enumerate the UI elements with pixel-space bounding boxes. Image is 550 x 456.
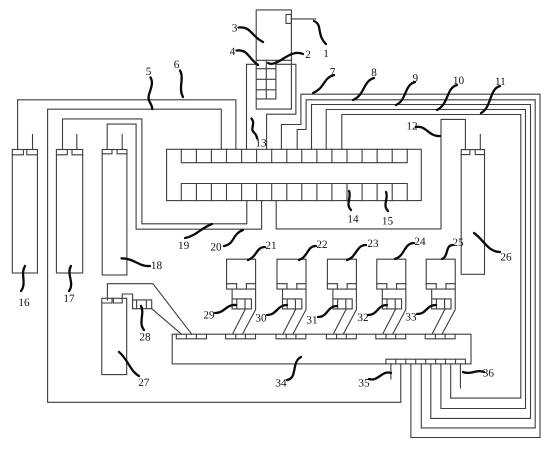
rail pad group 1 <box>176 334 206 339</box>
cell 26 <box>461 150 484 275</box>
grid 4 <box>256 60 276 99</box>
leader 18 <box>122 258 151 266</box>
svg-text:34: 34 <box>275 378 287 390</box>
arm of clamp 28 <box>107 284 191 335</box>
gripper 21 links <box>233 289 256 334</box>
svg-text:28: 28 <box>139 332 151 344</box>
svg-text:31: 31 <box>306 315 317 327</box>
leader 2 <box>268 53 303 64</box>
stub 36 <box>459 364 461 388</box>
tray 19/20 below comb and riser to cell 26 <box>276 119 465 228</box>
leader 27 <box>119 352 139 376</box>
wire from port 1 <box>291 18 315 20</box>
svg-text:7: 7 <box>330 67 336 79</box>
leader 32 <box>368 305 387 315</box>
svg-text:21: 21 <box>265 240 276 252</box>
leader 10 <box>437 85 457 110</box>
clamp 33 <box>432 299 451 309</box>
svg-text:10: 10 <box>453 75 465 87</box>
cell 17 <box>56 150 82 274</box>
rail pad group 4 <box>326 334 356 339</box>
cell 26 stub <box>479 135 481 150</box>
leader 20 <box>224 230 243 246</box>
leader 26 <box>474 233 500 252</box>
wire from cell 17 to comb bottom <box>63 119 247 224</box>
leader 17 <box>69 266 71 291</box>
svg-text:18: 18 <box>151 260 163 272</box>
svg-text:35: 35 <box>358 378 370 390</box>
gripper 24 feet <box>377 284 406 289</box>
svg-text:27: 27 <box>138 377 150 389</box>
gripper 21 neck <box>231 289 233 299</box>
rail pad group 3 <box>276 334 306 339</box>
leader 11 <box>481 86 500 113</box>
svg-text:30: 30 <box>255 313 267 325</box>
leader 31 <box>318 306 337 317</box>
port 1 <box>286 15 291 24</box>
leader 14 <box>348 191 351 210</box>
gripper 23 neck <box>332 289 334 299</box>
leader 22 <box>299 246 316 260</box>
svg-text:19: 19 <box>178 240 190 252</box>
comb body 13/14/15 <box>167 149 422 200</box>
gripper 22 links <box>283 289 306 334</box>
rail 34 <box>172 334 471 364</box>
clamp 29 <box>232 299 251 309</box>
leader 35 <box>369 373 391 380</box>
svg-text:25: 25 <box>452 237 464 249</box>
leader 8 <box>353 78 374 100</box>
svg-text:16: 16 <box>18 297 30 309</box>
wire 5 <box>18 100 236 150</box>
svg-text:4: 4 <box>230 46 236 58</box>
svg-text:32: 32 <box>357 312 368 324</box>
wire 10 <box>326 110 525 409</box>
wire 11 <box>342 115 521 399</box>
leader 3 <box>239 27 264 42</box>
svg-text:29: 29 <box>203 310 215 322</box>
svg-text:26: 26 <box>500 252 512 264</box>
gripper 25 links <box>432 289 455 334</box>
rail pad group 5 <box>376 334 406 339</box>
gripper 24 neck <box>381 289 383 299</box>
wire 9 <box>312 105 531 419</box>
gripper 23 body <box>327 259 356 284</box>
stub 35 <box>390 364 392 379</box>
gripper 22 body <box>277 259 306 284</box>
gripper 21 feet <box>227 284 256 289</box>
rail pad group 2 <box>226 334 256 339</box>
cell 17 stub <box>76 135 78 150</box>
leader 21 <box>248 247 265 260</box>
svg-text:5: 5 <box>146 66 152 78</box>
wire 6 <box>48 109 401 402</box>
gripper 25 feet <box>426 284 455 289</box>
leader 34 <box>287 357 301 380</box>
gripper 23 links <box>333 289 356 334</box>
cell 27 terminals <box>102 298 122 303</box>
comb bottom teeth row <box>181 184 407 201</box>
svg-text:3: 3 <box>232 23 238 35</box>
cell 18 terminals <box>102 150 127 154</box>
leader 5 <box>149 78 153 110</box>
leader 12 <box>416 127 440 136</box>
clamp 30 <box>283 299 302 309</box>
leader 30 <box>267 305 287 315</box>
svg-text:9: 9 <box>413 73 419 85</box>
leader 33 <box>417 305 436 314</box>
svg-text:6: 6 <box>174 59 180 71</box>
cell 18 stub <box>121 135 123 150</box>
svg-text:17: 17 <box>63 293 75 305</box>
gripper 25 neck <box>431 289 433 299</box>
svg-text:20: 20 <box>210 242 222 254</box>
gripper 25 body <box>426 259 455 284</box>
leader 13 <box>252 119 258 139</box>
leader 25 <box>442 245 453 259</box>
leader 6 <box>180 71 183 98</box>
leader 9 <box>396 82 415 105</box>
svg-text:33: 33 <box>405 312 417 324</box>
gripper 22 feet <box>277 284 306 289</box>
svg-text:23: 23 <box>367 238 379 250</box>
svg-text:14: 14 <box>347 214 359 226</box>
clamp 28 <box>133 300 152 309</box>
svg-text:22: 22 <box>316 239 327 251</box>
clamp 31 <box>333 299 352 309</box>
svg-text:13: 13 <box>255 138 267 150</box>
gripper 24 links <box>383 289 406 334</box>
svg-text:11: 11 <box>495 76 506 88</box>
cell 16 stub <box>32 135 34 150</box>
wire 7 <box>281 94 540 437</box>
cell 16 <box>12 150 37 274</box>
terminal strip 35/36 under rail <box>386 359 466 364</box>
wire U below grid to housing <box>256 60 291 109</box>
leader 4 <box>237 50 259 65</box>
leader 7 <box>313 75 334 93</box>
housing 3 <box>256 10 291 60</box>
cell 18 <box>102 150 127 276</box>
leader 16 <box>21 266 25 291</box>
gripper 21 body <box>227 259 256 284</box>
svg-text:15: 15 <box>382 216 394 228</box>
svg-text:8: 8 <box>371 67 377 79</box>
gripper 23 feet <box>327 284 356 289</box>
svg-text:2: 2 <box>305 49 311 61</box>
leader 23 <box>347 245 366 260</box>
cell 17 terminals <box>56 150 82 155</box>
leader 36 <box>463 371 484 373</box>
leader 15 <box>385 192 388 211</box>
gripper 24 body <box>377 259 406 284</box>
leader 29 <box>215 305 236 313</box>
gripper 22 neck <box>282 289 284 299</box>
block above cell 27 <box>122 294 132 309</box>
cell 16 terminals <box>12 150 37 155</box>
clamp 32 <box>382 299 401 309</box>
wire from cell 18 to comb bottom <box>107 124 261 229</box>
cell 27 <box>102 298 127 374</box>
leader 19 <box>185 224 212 238</box>
svg-text:1: 1 <box>323 48 329 60</box>
cell 26 terminals <box>461 150 484 155</box>
svg-text:24: 24 <box>414 236 426 248</box>
leader 28 <box>141 306 144 330</box>
svg-text:12: 12 <box>406 121 417 133</box>
leader 1 <box>314 21 326 44</box>
comb top teeth row <box>181 149 407 162</box>
enclosure box around grid <box>247 64 296 149</box>
leader 24 <box>395 243 414 259</box>
wire 8 <box>297 100 535 428</box>
svg-text:36: 36 <box>483 368 495 380</box>
rail pad group 6 <box>425 334 455 339</box>
